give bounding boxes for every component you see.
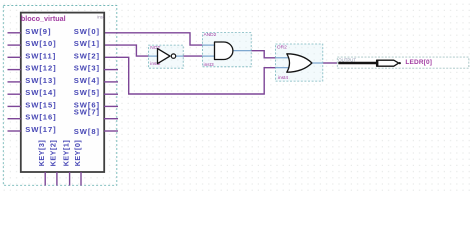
svg-text:SW[13]: SW[13] xyxy=(25,76,56,85)
selection box around bloco_virtual xyxy=(3,6,117,186)
pin SW[16] xyxy=(8,113,57,122)
svg-text:SW[2]: SW[2] xyxy=(74,51,100,60)
block bloco_virtual xyxy=(21,13,105,172)
pin SW[5] xyxy=(74,88,118,97)
pin SW[15] xyxy=(8,100,57,109)
wire SW[2] row long run to OR2 input B xyxy=(104,57,276,94)
svg-text:SW[17]: SW[17] xyxy=(25,125,56,134)
output pin LEDR[0] xyxy=(337,57,469,68)
pin KEY[1] xyxy=(61,140,70,186)
svg-text:LEDR[0]: LEDR[0] xyxy=(405,59,432,66)
svg-text:inst3: inst3 xyxy=(204,62,214,68)
pin SW[17] xyxy=(8,125,57,134)
svg-text:OUTPUT: OUTPUT xyxy=(338,57,356,62)
NOT gate inst2 xyxy=(149,45,184,68)
pin SW[0] xyxy=(74,27,100,36)
svg-text:bloco_virtual: bloco_virtual xyxy=(21,14,66,23)
svg-text:KEY[3]: KEY[3] xyxy=(37,140,46,167)
pin SW[10] xyxy=(8,39,57,48)
svg-text:KEY[0]: KEY[0] xyxy=(73,140,82,167)
svg-text:SW[3]: SW[3] xyxy=(74,64,100,73)
svg-text:OR2: OR2 xyxy=(277,45,287,51)
pin SW[11] xyxy=(8,51,57,60)
svg-text:SW[5]: SW[5] xyxy=(74,88,100,97)
pin SW[6] xyxy=(74,100,118,109)
wire AND2 output to OR2 input A xyxy=(251,51,275,58)
AND2 gate inst3 xyxy=(202,32,251,68)
svg-text:SW[15]: SW[15] xyxy=(25,100,56,109)
pin SW[13] xyxy=(8,76,57,85)
svg-text:SW[14]: SW[14] xyxy=(25,88,56,97)
svg-text:inst4: inst4 xyxy=(278,75,288,81)
pin SW[8] xyxy=(74,127,118,136)
svg-text:AND2: AND2 xyxy=(204,32,217,38)
pin KEY[2] xyxy=(49,140,58,186)
pin SW[12] xyxy=(8,64,57,73)
svg-text:KEY[2]: KEY[2] xyxy=(49,140,58,167)
pin SW[3] xyxy=(74,64,118,73)
pin SW[4] xyxy=(74,76,118,85)
pin SW[7] xyxy=(74,108,118,119)
svg-text:inst: inst xyxy=(97,14,104,19)
pin KEY[3] xyxy=(37,140,46,186)
svg-text:SW[0]: SW[0] xyxy=(74,27,100,36)
wire NOT output to AND2 input B xyxy=(183,55,202,57)
pin SW[9] xyxy=(8,27,52,36)
svg-text:SW[9]: SW[9] xyxy=(25,27,51,36)
svg-text:SW[11]: SW[11] xyxy=(25,51,56,60)
svg-text:SW[16]: SW[16] xyxy=(25,113,56,122)
pin SW[14] xyxy=(8,88,57,97)
svg-text:SW[8]: SW[8] xyxy=(74,127,100,136)
OR2 gate inst4 xyxy=(276,44,323,81)
svg-text:SW[12]: SW[12] xyxy=(25,64,56,73)
svg-text:SW[7]: SW[7] xyxy=(74,108,100,117)
svg-text:SW[10]: SW[10] xyxy=(25,39,56,48)
svg-text:KEY[1]: KEY[1] xyxy=(61,140,70,167)
svg-text:SW[1]: SW[1] xyxy=(74,39,100,48)
pin SW[1] xyxy=(74,39,100,48)
svg-text:SW[4]: SW[4] xyxy=(74,76,100,85)
pin KEY[0] xyxy=(73,140,82,186)
wire OR2 output to LEDR[0] xyxy=(323,62,339,64)
pin SW[2] xyxy=(74,51,100,60)
wire SW[1] row to NOT input xyxy=(104,45,149,56)
wire SW[0] row to AND2 input A xyxy=(104,33,202,45)
